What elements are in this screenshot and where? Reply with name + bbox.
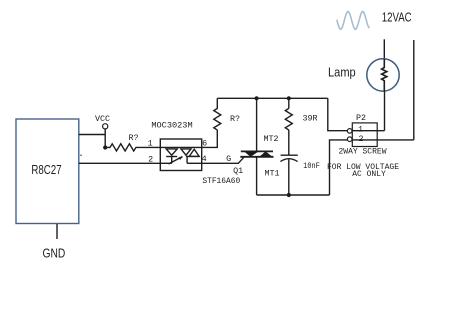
label MT2 xyxy=(263,134,278,144)
wire MT2 vertical xyxy=(256,98,258,151)
power symbol VCC terminal circle xyxy=(103,124,108,129)
opto internal diac triangles xyxy=(181,149,199,163)
svg-text:R?: R? xyxy=(230,114,240,124)
svg-text:1: 1 xyxy=(148,139,153,149)
wire snubber top stub xyxy=(288,98,290,108)
wire lamp to P2 pin1 xyxy=(384,91,386,131)
connector pin circle 1 xyxy=(347,129,352,134)
power label VCC xyxy=(95,114,110,124)
wire P2 pin2 row to source xyxy=(352,139,414,141)
connector pin circle 2 xyxy=(347,137,352,142)
wire pin2 from R8C27 to opto xyxy=(79,162,161,164)
wire P2 pin1 row to lamp xyxy=(352,130,384,132)
svg-text:Lamp: Lamp xyxy=(328,65,356,80)
node junction MT2 on top rail xyxy=(255,96,259,100)
wire 39R to cap xyxy=(288,130,290,155)
svg-text:12VAC: 12VAC xyxy=(382,9,412,24)
wire gate from pin4 xyxy=(202,157,245,164)
pin 1 label xyxy=(148,139,153,149)
svg-text:MOC3023M: MOC3023M xyxy=(151,121,192,131)
resistor R? (gate, vertical) xyxy=(214,98,221,130)
wire source return to P2 pin2 xyxy=(413,40,415,140)
capacitor 10nF label xyxy=(303,161,320,171)
triac designator Q1 xyxy=(233,166,243,176)
connector pin number 1 xyxy=(358,124,363,134)
svg-text:R8C27: R8C27 xyxy=(31,162,61,177)
resistor 39R snubber xyxy=(285,108,292,130)
svg-text:1: 1 xyxy=(358,124,363,134)
svg-text:2WAY SCREW: 2WAY SCREW xyxy=(338,148,386,157)
label MT1 xyxy=(264,169,279,179)
wire top rail to P2 pin1 xyxy=(328,98,348,130)
svg-text:MT2: MT2 xyxy=(263,134,278,144)
wire bottom rail to P2 pin2 xyxy=(330,140,348,195)
resistor R? value label xyxy=(128,133,138,143)
resistor R? (series LED resistor) xyxy=(105,144,160,151)
lamp LA1 circle xyxy=(367,59,399,91)
svg-text:STF16A60: STF16A60 xyxy=(202,177,240,186)
svg-text:2: 2 xyxy=(148,155,153,165)
IC U1 label R8C27 xyxy=(31,162,61,177)
opto internal LED xyxy=(166,149,177,163)
connector P2 box xyxy=(352,123,377,147)
svg-text:2: 2 xyxy=(358,134,363,144)
svg-text:MT1: MT1 xyxy=(264,169,279,179)
triac part STF16A60 xyxy=(202,177,240,186)
note AC ONLY xyxy=(352,170,386,179)
svg-text:VCC: VCC xyxy=(95,114,110,124)
pin 6 label xyxy=(202,139,207,149)
resistor R? gate value label xyxy=(230,114,240,124)
pin 2 label xyxy=(148,155,153,165)
lamp filament xyxy=(382,59,387,91)
svg-text:39R: 39R xyxy=(302,113,317,123)
ground stub wire xyxy=(56,224,58,239)
wire R8C27 to VCC node xyxy=(79,134,105,136)
wire source to lamp xyxy=(383,39,385,59)
svg-text:GND: GND xyxy=(43,247,66,261)
svg-text:G: G xyxy=(226,154,231,164)
triac Q1 symbol xyxy=(240,151,273,156)
svg-text:AC ONLY: AC ONLY xyxy=(352,170,386,179)
capacitor C1 10nF xyxy=(280,155,297,161)
resistor 39R label xyxy=(302,113,317,123)
node junction snubber on top rail xyxy=(287,96,291,100)
wire cap to bottom rail xyxy=(288,160,290,196)
opto internal cathode/output rail xyxy=(160,162,201,164)
ground label GND xyxy=(43,247,66,261)
stray dot xyxy=(80,154,82,156)
wire MT1 vertical xyxy=(256,157,258,195)
opto label MOC3023M xyxy=(151,121,192,131)
connector pin number 2 xyxy=(358,134,363,144)
AC source label 12VAC xyxy=(382,9,412,24)
IC U1 R8C27 box xyxy=(16,119,79,224)
wire pin6 to gate resistor xyxy=(202,130,218,147)
connector P2 label xyxy=(356,113,366,123)
gate label G xyxy=(226,154,231,164)
svg-text:10nF: 10nF xyxy=(303,161,320,171)
svg-text:Q1: Q1 xyxy=(233,166,243,176)
node junction at VCC / R1 xyxy=(103,145,107,149)
svg-text:P2: P2 xyxy=(356,113,366,123)
node junction cap bottom xyxy=(287,193,291,197)
note FOR LOW VOLTAGE xyxy=(327,163,399,172)
opto LED emission arrow xyxy=(169,156,183,164)
AC source sine symbol xyxy=(337,12,370,30)
wire bottom rail xyxy=(257,194,330,196)
wire VCC stub down xyxy=(104,129,106,148)
opto-coupler U2 MOC3023M box xyxy=(160,139,201,171)
lamp label xyxy=(328,65,356,80)
connector type label 2WAY SCREW xyxy=(338,148,386,157)
wire top rail xyxy=(217,97,327,99)
pin 4 label xyxy=(202,154,207,164)
svg-text:R?: R? xyxy=(128,133,138,143)
opto internal anode rail xyxy=(160,146,201,148)
